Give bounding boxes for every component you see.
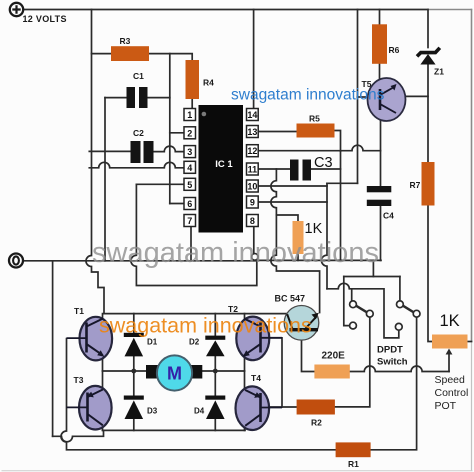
resistor R1	[336, 442, 371, 457]
wire pin11 net vertical B2 x=276.4 with hops, to 1K top tee, hop mid-rail, then to BC547 collector	[271, 169, 320, 313]
wire T5 emitter down through pin12 row to C4	[380, 121, 382, 187]
svg-text:10: 10	[247, 182, 257, 192]
wire top rail gray extension to right border	[428, 9, 472, 11]
svg-text:11: 11	[248, 165, 258, 175]
svg-text:Speed: Speed	[435, 374, 466, 386]
svg-text:T2: T2	[228, 304, 238, 314]
transistor T4	[236, 386, 283, 430]
wire R5 right corner down to pin12 row joining vertical A	[335, 131, 341, 152]
wire branch horizontal y=183.3 from long vertical to B	[327, 182, 358, 184]
resistor R4	[186, 60, 200, 99]
svg-text:R1: R1	[348, 459, 359, 469]
IC pin1 indicator dot	[202, 112, 207, 117]
svg-text:BC 547: BC 547	[275, 294, 306, 304]
svg-text:4: 4	[187, 163, 192, 173]
svg-text:C2: C2	[133, 128, 144, 138]
wire pin10 row	[259, 185, 328, 187]
wire D2 D4 vertical column	[214, 314, 216, 431]
wire left pole common down to R2 right	[335, 317, 370, 407]
resistor R6	[372, 24, 387, 64]
transistor T2	[236, 317, 282, 361]
wire bottom faint border	[2, 470, 472, 472]
svg-text:9: 9	[250, 198, 255, 208]
wire pot right to border	[468, 341, 472, 343]
svg-text:R4: R4	[203, 78, 214, 88]
svg-text:6: 6	[187, 199, 192, 209]
wire T1-T3 base vertical continuing with hop to R1 row	[61, 339, 336, 450]
svg-text:5: 5	[187, 180, 192, 190]
svg-text:Control: Control	[435, 387, 469, 399]
switch contact bottom-left	[350, 322, 357, 329]
svg-text:POT: POT	[435, 400, 457, 412]
zener Z1	[417, 48, 440, 65]
wire bridge top rail to BC547 base	[104, 313, 287, 315]
wire pin8 drop	[253, 227, 255, 254]
svg-text:T3: T3	[74, 375, 84, 385]
resistor R2	[297, 400, 335, 415]
wire T3 top lead	[102, 371, 104, 390]
resistor R3	[111, 46, 149, 61]
label Speed Control POT	[435, 374, 469, 412]
diode D1	[124, 333, 144, 357]
pot wiper arrowhead	[446, 349, 453, 355]
diode D2	[205, 336, 225, 357]
wire right border rail	[471, 10, 473, 342]
svg-text:3: 3	[187, 147, 192, 157]
svg-text:13: 13	[247, 127, 257, 137]
svg-text:C1: C1	[133, 71, 144, 81]
wire R4 bottom to pin1	[191, 99, 193, 109]
potentiometer 1K	[432, 335, 468, 349]
wire crossbar left down to bottom-left contact	[344, 277, 350, 326]
wire C4 bottom to mid rail	[380, 206, 382, 260]
resistor 1K (pin11 net)	[293, 221, 304, 254]
IC pin numbers	[187, 110, 257, 226]
wire T2 bottom lead	[244, 357, 246, 372]
wire vertical x=169.8 from R3 row down to pin6 row	[169, 54, 171, 204]
wire bridge bottom rail	[103, 429, 246, 431]
wire pin5 row	[136, 183, 184, 185]
wire T1 top lead	[102, 314, 104, 321]
transistor T5	[368, 78, 406, 121]
wire pin9 row	[259, 201, 328, 203]
switch pole left common	[366, 310, 373, 317]
wire long vertical x=357.5 from top rail	[357, 10, 359, 184]
wire C3 right to vertical A	[311, 168, 341, 170]
wire pin12 row with hop over x357 long vertical	[259, 145, 381, 151]
svg-text:220E: 220E	[322, 351, 346, 362]
wire vertical x=105 C1-left down to ground	[104, 98, 106, 261]
junction dot D1-motor row	[131, 369, 136, 374]
svg-text:D2: D2	[189, 338, 200, 347]
wire R6 bottom to T5	[379, 64, 381, 79]
wire R7 bottom to pot left	[428, 206, 432, 342]
motor terminal right	[190, 365, 202, 379]
wire ground drop at x=52.6	[52, 261, 54, 437]
wire vertical B x=327 down, hop mid-rail, to switch feed	[322, 183, 328, 288]
svg-text:IC 1: IC 1	[215, 159, 233, 170]
svg-text:R3: R3	[120, 36, 131, 46]
switch blade left	[356, 306, 367, 312]
svg-text:M: M	[167, 364, 182, 384]
svg-text:D1: D1	[147, 338, 158, 347]
svg-text:1: 1	[187, 110, 192, 120]
svg-text:1K: 1K	[305, 221, 323, 237]
svg-text:swagatam innovations: swagatam innovations	[99, 314, 312, 338]
wire B horizontal y=288.8 to switch contacts	[327, 283, 399, 338]
wire T1 bottom lead	[102, 356, 104, 371]
switch contact top-right	[397, 301, 404, 308]
svg-text:C4: C4	[383, 211, 394, 221]
resistor R5	[297, 124, 335, 138]
wire T3 bottom lead	[102, 425, 104, 430]
wire top rail	[24, 9, 429, 11]
svg-text:R6: R6	[389, 45, 400, 55]
svg-text:D3: D3	[147, 407, 158, 416]
wire mid rail (1K bottom row)	[257, 259, 381, 261]
IC U1 body	[199, 105, 244, 233]
transistor T1	[67, 317, 113, 361]
wire R3 row from left rail to R4 top	[92, 54, 193, 60]
capacitor C1	[127, 87, 148, 108]
svg-text:C3: C3	[314, 155, 333, 171]
wire 1K top tee	[276, 215, 298, 221]
svg-text:swagatam innovations: swagatam innovations	[231, 87, 385, 104]
diode D3	[124, 396, 144, 420]
wire zener bottom to R7	[427, 64, 429, 162]
motor terminal left	[146, 365, 158, 379]
junction dot D2-motor row	[213, 369, 218, 374]
wire pin6 row	[170, 203, 184, 205]
svg-text:Z1: Z1	[434, 67, 444, 77]
wire C2 to pin3 with hop over x171	[154, 146, 185, 152]
wire switch crossbar	[344, 276, 400, 278]
wire D1 D3 vertical column	[133, 314, 135, 431]
svg-text:14: 14	[247, 110, 257, 120]
svg-text:7: 7	[187, 216, 192, 226]
resistor 220E	[314, 365, 349, 379]
wire x=136.4 vertical with hop over ground then U to mid-rail corner	[131, 184, 257, 285]
diode D4	[205, 396, 225, 420]
resistor R7	[422, 162, 435, 206]
wire pin11 row to C3 left	[259, 168, 291, 170]
wire 1K bottom stub	[297, 254, 299, 260]
wire T2 top lead	[244, 314, 246, 320]
wire ground bottom run with hop then up to bridge rail	[53, 430, 104, 441]
node pin8 terminal circle on ground wire	[252, 254, 259, 261]
wire T5 base stub	[358, 96, 369, 98]
terminal 0 (negative)	[9, 254, 23, 268]
transistor T3	[67, 386, 112, 430]
wire C2 row left	[89, 150, 130, 152]
wire T4 bottom lead	[244, 426, 246, 430]
motor M	[157, 355, 192, 390]
svg-text:DPDT: DPDT	[377, 345, 403, 356]
capacitor C3	[290, 160, 311, 181]
svg-text:R2: R2	[311, 418, 322, 428]
wire motor row left	[103, 370, 146, 372]
wire emitter-220E-wiper row with hops over both switch verticals	[350, 366, 449, 372]
svg-text:1K: 1K	[440, 312, 460, 330]
wire pin7 drop to ground	[190, 227, 192, 261]
wire pin14 riser from top rail	[253, 10, 255, 109]
IC pin boxes right 14-8	[247, 109, 259, 227]
wire left +12V rail with hop over 0-wire and jogs down to bridge	[86, 10, 104, 314]
wire pin13 row to R5	[259, 131, 297, 133]
svg-text:swagatam innovations: swagatam innovations	[92, 237, 379, 269]
switch pole right common	[413, 310, 420, 317]
wire vertical A x=340.5 down to mid rail	[340, 151, 342, 260]
IC pin boxes left 1-7	[184, 109, 196, 227]
transistor BC547	[284, 306, 319, 341]
wire pot wiper arrow stem	[448, 353, 450, 372]
svg-text:D4: D4	[194, 407, 205, 416]
wire right border faint lower part	[471, 342, 473, 471]
svg-text:12 VOLTS: 12 VOLTS	[23, 14, 67, 24]
wire 0 / ground horizontal	[24, 260, 257, 262]
wire C1 row	[105, 97, 170, 99]
wire pin4 row with hop at x=104	[89, 162, 184, 168]
wire motor row right	[202, 370, 245, 372]
wire crossbar right down to top-right contact	[399, 277, 401, 301]
switch blade right	[403, 306, 413, 312]
terminal plus 12V	[10, 3, 23, 16]
svg-text:8: 8	[250, 216, 255, 226]
switch contact top-left	[350, 301, 357, 308]
wire 220E left to BC547 emitter	[302, 332, 315, 372]
svg-text:2: 2	[187, 128, 192, 138]
svg-text:T4: T4	[251, 373, 261, 383]
wire T2 base lead to base vertical	[270, 338, 283, 407]
wire zener top from rail	[427, 10, 429, 48]
wire T4 top lead	[244, 371, 246, 390]
wire T5 collector right to zener line	[406, 95, 429, 97]
svg-text:Switch: Switch	[377, 357, 408, 368]
capacitor C4	[367, 186, 392, 206]
wire T4 base lead / R2 left	[270, 406, 297, 408]
wire right pole common down to R1 right	[371, 317, 417, 450]
wire pin2 row	[170, 132, 184, 134]
wire switch feed drop from mid rail	[372, 260, 374, 276]
svg-text:R7: R7	[410, 180, 421, 190]
svg-text:R5: R5	[309, 114, 320, 124]
svg-text:T1: T1	[74, 306, 84, 316]
wire R6 top stub	[379, 10, 381, 25]
capacitor C2	[131, 141, 154, 163]
svg-text:12: 12	[247, 146, 257, 156]
switch contact bottom-right	[395, 323, 402, 330]
